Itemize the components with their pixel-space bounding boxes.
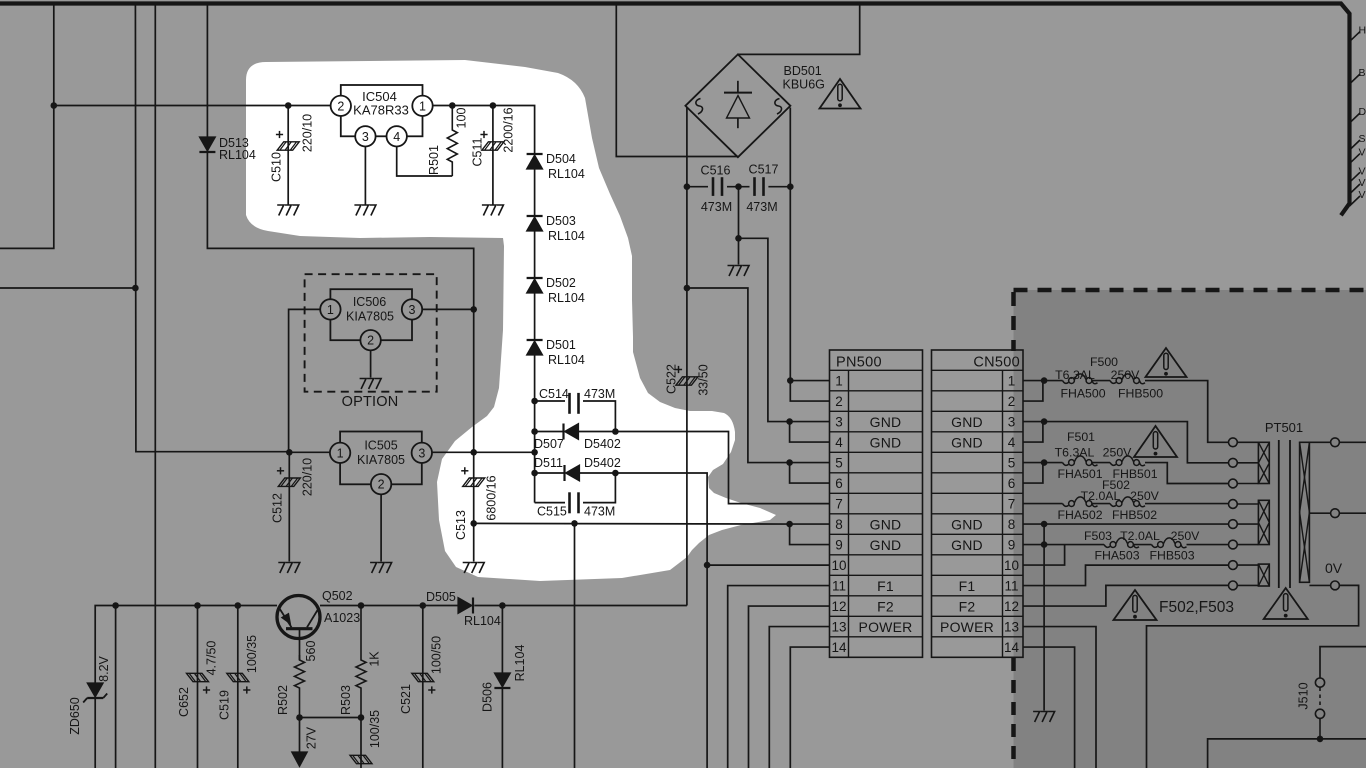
wire branch to PN500 pin10 [707,564,829,566]
svg-text:8: 8 [835,517,843,532]
wire IC505 pin2 to ground [380,494,382,561]
svg-text:3: 3 [835,415,843,430]
svg-text:IC505: IC505 [364,439,397,453]
svg-text:5: 5 [835,456,843,471]
svg-text:6: 6 [1008,476,1016,491]
svg-text:4.7/50: 4.7/50 [205,641,219,676]
capacitor C517 [753,177,756,196]
svg-text:C521: C521 [399,684,413,714]
ground C511 [482,205,504,216]
svg-text:3: 3 [409,303,416,317]
diode D505 [458,598,472,614]
node bridge center gnd [735,183,742,190]
ground IC504 [354,205,376,216]
svg-text:T6.3AL: T6.3AL [1055,446,1095,460]
wire secondary pin1 to edge [1339,441,1366,443]
svg-text:GND: GND [951,537,983,553]
svg-text:RL104: RL104 [548,291,585,305]
svg-text:8.2V: 8.2V [97,655,111,681]
svg-text:250V: 250V [1111,368,1141,382]
svg-text:GND: GND [951,516,983,532]
ground C512 [278,563,300,574]
node R502 bottom 27V [296,714,303,721]
node C513 top [470,449,477,456]
svg-text:KA78R33: KA78R33 [353,103,409,118]
wire R503 top stub [360,605,362,608]
svg-text:D507: D507 [534,437,564,451]
wire pin3 into table and step to pin4 [790,421,830,423]
svg-text:560: 560 [304,641,318,662]
node at x135 y288 [132,285,139,292]
wire rail Q502 collector to D505 and up C522 bus [320,605,458,607]
svg-text:0V: 0V [1325,560,1343,576]
svg-text:11: 11 [832,579,846,594]
capacitor C513 [463,478,485,486]
wire CN500 pin1 fuse F500 line [1023,380,1063,382]
svg-text:3: 3 [362,130,369,144]
PT501 primary winding 3 [1258,564,1269,586]
svg-text:1: 1 [327,303,334,317]
svg-text:C516: C516 [701,164,731,178]
regulator IC506 dashed option box [305,274,437,392]
svg-text:D503: D503 [546,214,576,228]
regulator IC506 [330,289,412,340]
ground C513 [463,563,485,574]
svg-text:12: 12 [1004,599,1019,614]
PT501 core [1278,440,1280,588]
ground bridge filter [728,266,750,277]
connector PN500 [830,350,923,657]
capacitor C521 [412,673,434,681]
svg-text:D505: D505 [426,590,456,604]
svg-text:3: 3 [1008,415,1016,430]
svg-text:250V: 250V [1130,489,1160,503]
capacitor C515 [568,492,571,513]
wire CN500 pin5 fuse F501 line [1023,462,1063,464]
diode D503 [527,215,543,217]
ground hot side [1033,712,1055,723]
svg-text:220/10: 220/10 [301,458,315,496]
diode D511 [563,465,565,481]
node R503 top [358,602,365,609]
svg-text:POWER: POWER [940,619,994,635]
node C652 top [194,602,201,609]
node D507 cathode-net [612,428,619,435]
wire PN500 pin13 from bottom [769,627,829,768]
PT501 secondary winding [1300,442,1310,582]
svg-text:C511: C511 [471,137,485,166]
capacitor C511 [482,142,504,150]
wire branch to PN500 pin5/6 net [687,288,790,463]
svg-text:7: 7 [1008,497,1016,512]
wire CN500 pin3 GND to PT501 pin2 [1023,422,1229,463]
label F502,F503 with warning triangle [1114,590,1157,620]
svg-text:FHB503: FHB503 [1149,549,1194,563]
svg-text:B: B [1359,67,1366,79]
wire gnd stub to ground [738,238,740,264]
wire x574 drop to bottom [574,523,576,768]
svg-text:2: 2 [1008,394,1016,409]
op-amp regulator IC504 [341,85,423,136]
svg-text:V: V [1359,165,1366,177]
node pin10 branch [704,562,711,569]
wire pin1 into table and step to pin2 [790,380,829,382]
svg-text:KIA7805: KIA7805 [346,310,394,324]
node R501 top [449,102,456,109]
node C513 bottom rail [470,520,477,527]
svg-text:3: 3 [418,446,425,460]
wire vertical bus x207 through D513 [207,4,473,452]
white highlight blob [246,60,776,581]
fuse F503 holders FHA503 FHB503 [1104,545,1110,548]
node CN500 pin9 [1041,541,1048,548]
fuse F500 holders FHA500 FHB500 [1063,381,1069,384]
warning triangle F501 [1134,426,1177,457]
zener diode ZD650 [87,683,103,697]
svg-text:FHA500: FHA500 [1060,387,1105,401]
svg-text:FHA503: FHA503 [1094,549,1139,563]
wire step pin4 up [1023,422,1043,443]
connector J510 [1320,647,1366,678]
wire IC506 pin2 to ground [370,350,372,377]
node CN500 pin1 [1041,377,1048,384]
node gnd branch [735,235,742,242]
svg-text:FHA502: FHA502 [1057,508,1102,522]
node PN500 pin1 [787,377,794,384]
svg-text:1: 1 [1008,374,1016,389]
wire 27V emitter rail [95,606,277,684]
svg-text:CN500: CN500 [973,355,1020,371]
svg-text:7: 7 [835,497,843,512]
svg-text:2: 2 [337,99,344,113]
ground C510 [277,205,299,216]
svg-text:C512: C512 [271,493,285,523]
svg-text:C652: C652 [177,687,191,717]
svg-text:14: 14 [1004,640,1020,655]
wire D506 leg [501,606,503,674]
svg-text:100/35: 100/35 [368,710,382,748]
wire CN500 pin13 POWER down [1023,627,1096,768]
svg-text:V: V [1359,147,1366,159]
wire IC504 pin3 to ground [364,147,366,205]
svg-text:RL104: RL104 [513,645,527,682]
wire PN500 pin11 from bottom [728,586,830,768]
svg-text:C517: C517 [749,163,779,177]
warning triangle F500 [1146,348,1187,377]
node C511 top [490,102,497,109]
svg-text:9: 9 [1008,538,1016,553]
svg-text:RL104: RL104 [464,614,501,628]
svg-text:C515: C515 [537,505,567,519]
wire D507 row [535,431,564,433]
svg-text:F502,F503: F502,F503 [1159,599,1234,616]
wire CN500 pin11 F1 to PT501 pin7 [1023,565,1229,585]
diode D501 [527,339,543,341]
svg-text:D5402: D5402 [584,456,621,470]
PT501 primary winding 2 [1258,500,1269,544]
wire PN500 pin14 from bottom [790,647,829,768]
svg-text:J510: J510 [1297,682,1311,709]
wire C515 loop [535,502,565,504]
wire CN500 pin9 fuse F503 line [1023,544,1104,546]
svg-text:100/50: 100/50 [430,636,444,674]
node D507 anode [531,428,538,435]
diode D513 [199,137,215,151]
svg-text:F503: F503 [1084,529,1112,543]
wire 0V return [1147,585,1359,768]
wire cold ground rail y523 to PN500 pin8/9 [474,522,790,525]
svg-text:R503: R503 [339,685,353,715]
wire C512 to IC505 pin1 [289,451,330,453]
node D511 anode [531,470,538,477]
svg-text:T2.0AL: T2.0AL [1120,529,1160,543]
node chain-IC505pin3 [531,449,538,456]
svg-text:R502: R502 [276,685,290,715]
wire vertical bus x135 from top [135,4,289,452]
svg-text:V: V [1359,177,1366,189]
svg-text:250V: 250V [1171,529,1201,543]
wire CN500 pin7 fuse F502 line [1023,503,1063,505]
svg-text:D: D [1359,106,1366,118]
node R503 bottom [358,714,365,721]
capacitor 100/35 below R503 [360,718,362,768]
PT501 secondary pins [1309,441,1330,443]
svg-text:H: H [1359,25,1366,37]
svg-text:C514: C514 [539,387,569,401]
wire step pin8-pin9 and ground leg [1043,524,1045,710]
node CN500 pin3 [1041,418,1048,425]
wire vertical bus x155 from top to bottom [154,4,156,768]
svg-text:27V: 27V [305,726,319,749]
wire page-top tap x616 to BD501 bottom vertex [616,4,738,157]
svg-text:220/10: 220/10 [301,114,315,152]
svg-text:C522: C522 [665,364,679,394]
svg-text:ZD650: ZD650 [68,697,82,735]
svg-text:2200/16: 2200/16 [502,107,516,152]
svg-text:GND: GND [951,434,983,450]
svg-text:A1023: A1023 [324,611,360,625]
svg-text:OPTION: OPTION [342,394,399,410]
svg-text:GND: GND [870,414,902,430]
node C516 left [684,183,691,190]
resistor R501 [447,106,457,177]
transistor Q502 [277,596,320,639]
svg-text:GND: GND [870,516,902,532]
svg-text:R501: R501 [427,145,441,175]
node at x54 y105 [51,102,58,109]
svg-text:100: 100 [455,108,469,129]
wire pin5 into table and step to pin6 [790,462,830,464]
svg-text:4: 4 [835,435,843,450]
wire BD501 right vertex down to PN500 pin1 [789,108,791,381]
svg-text:GND: GND [870,537,902,553]
node C512 top [286,449,293,456]
svg-text:473M: 473M [746,200,777,214]
wire IC504 pin1 to diode chain [433,106,535,155]
wire CN500 pin10 up to F503 line [1023,545,1065,566]
svg-text:5: 5 [1008,456,1016,471]
capacitor C519 [227,673,249,681]
wire D507 net to PN500 pin7 [615,432,829,504]
node C510 top [285,102,292,109]
svg-text:2: 2 [367,334,374,348]
svg-text:1: 1 [337,446,344,460]
svg-text:C519: C519 [218,690,232,720]
svg-text:2: 2 [835,394,843,409]
svg-text:Q502: Q502 [322,589,353,603]
svg-text:10: 10 [1004,558,1019,573]
svg-text:14: 14 [831,640,847,655]
svg-text:RL104: RL104 [219,148,256,162]
svg-text:13: 13 [1004,620,1019,635]
node C521 top [420,602,427,609]
diode D506 [494,673,510,687]
diode D502 [527,277,543,279]
wire IC504 pin4 to R501 bottom [397,147,453,177]
svg-text:F1: F1 [877,578,894,594]
resistor R502 [295,655,305,718]
wire PN500 pin12 from bottom [749,606,830,768]
svg-text:33/50: 33/50 [697,364,711,395]
node C517 right [787,183,794,190]
svg-text:FHA501: FHA501 [1057,467,1102,481]
svg-text:S: S [1359,133,1366,145]
svg-text:GND: GND [870,434,902,450]
svg-text:1: 1 [419,99,426,113]
svg-text:9: 9 [835,538,843,553]
connector CN500 [932,350,1024,657]
node C522 branch [684,285,691,292]
warning triangle PT501 [1264,588,1308,619]
node rail x115 [112,602,119,609]
svg-text:473M: 473M [584,505,615,519]
wire C516/C517 row [687,186,708,188]
wire step pin6 up [1023,463,1043,484]
svg-text:GND: GND [951,414,983,430]
wire C519 leg [237,606,239,768]
wire D511 row [535,472,565,474]
thick page border top [0,4,1350,216]
svg-text:POWER: POWER [859,619,913,635]
node PN500 pin5 [786,459,793,466]
svg-text:6800/16: 6800/16 [485,475,499,520]
hot/cold dashed border [1014,288,1366,293]
wire step pin8-pin9 [790,524,830,545]
fuse F502 holders FHA502 FHB502 [1063,504,1069,507]
svg-text:C510: C510 [270,152,284,182]
node D506 top [499,602,506,609]
svg-text:PT501: PT501 [1265,420,1303,435]
svg-text:D504: D504 [546,152,576,166]
capacitor C522 [676,377,698,385]
wire IC506 pin1 tap [289,309,321,451]
wire D511 net to PN500 pin10 and bottom [615,473,707,768]
regulator IC505 [340,432,422,485]
svg-text:8: 8 [1008,517,1016,532]
wire left edge y288 [0,287,135,289]
node CN500 pin8 [1041,521,1048,528]
node J510 bottom [1317,736,1324,743]
net arrow down [299,718,301,753]
svg-text:KBU6G: KBU6G [783,78,825,92]
svg-text:D511: D511 [534,456,563,470]
svg-text:T6.3AL: T6.3AL [1055,368,1095,382]
svg-text:F2: F2 [959,598,976,614]
diode D504 [527,153,543,155]
svg-text:1: 1 [835,374,843,389]
wire CN500 pin14 down [1023,647,1075,768]
svg-text:RL104: RL104 [548,353,585,367]
svg-text:D506: D506 [481,682,495,712]
svg-text:F1: F1 [959,578,976,594]
hot side dark region [1014,290,1366,768]
svg-text:12: 12 [831,599,846,614]
svg-text:13: 13 [831,620,846,635]
wire main 9V rail y105 to IC504 pin2 [54,105,331,107]
svg-text:D502: D502 [546,276,576,290]
svg-text:RL104: RL104 [548,167,585,181]
wire CN500 pin8 GND to PT501 pin5 [1023,523,1229,525]
node C514 left [531,398,538,405]
resistor R503 [356,606,366,718]
diode D507 [562,424,564,440]
capacitor C512 [278,478,300,486]
svg-text:FHB502: FHB502 [1112,508,1157,522]
node PN500 pin8 [786,521,793,528]
svg-text:D5402: D5402 [584,437,621,451]
svg-text:V: V [1359,189,1366,201]
svg-text:6: 6 [835,476,843,491]
wire diode chain segments [534,169,536,216]
capacitor C514 [568,393,571,414]
fuse F501 holders FHA501 FHB501 [1063,463,1069,466]
svg-text:10: 10 [831,558,846,573]
svg-text:F2: F2 [877,598,894,614]
wire x115 to bottom [115,606,117,768]
wire step pin2 up [1023,381,1043,402]
svg-text:IC506: IC506 [353,295,386,309]
svg-text:473M: 473M [584,387,615,401]
svg-text:4: 4 [393,130,400,144]
PT501 primary winding 1 [1258,442,1269,483]
wire IC506 pin3 tap [422,308,474,310]
node IC506 pin3 tap [470,306,477,313]
wire BD501 left vertex down (C522 bus) [686,108,688,606]
node D511 cathode-net [612,470,619,477]
svg-text:F500: F500 [1090,355,1118,369]
ground IC505 [370,563,392,574]
ground IC506 [360,379,382,390]
wire C652 leg [197,606,199,768]
wire C521 leg [422,606,424,768]
svg-text:FHB500: FHB500 [1118,387,1163,401]
wire vertical bus x54 from top border [0,4,54,248]
panel edge ticks with signal letters [1350,32,1361,42]
svg-text:T2.0AL: T2.0AL [1081,489,1121,503]
capacitor C516 [712,177,715,196]
node CN500 pin5 [1041,459,1048,466]
svg-text:C513: C513 [454,510,468,540]
svg-text:1K: 1K [368,651,382,667]
wire bridge gnd stub [738,187,740,239]
warning triangle BD501 [820,79,861,109]
wire C514 loop [535,400,565,402]
node C519 top [235,602,242,609]
svg-text:11: 11 [1004,579,1018,594]
wire CN500 pin12 F2 to PT501 pin8 [1023,585,1229,606]
node x574 rail drop [571,520,578,527]
svg-text:2: 2 [378,478,385,492]
